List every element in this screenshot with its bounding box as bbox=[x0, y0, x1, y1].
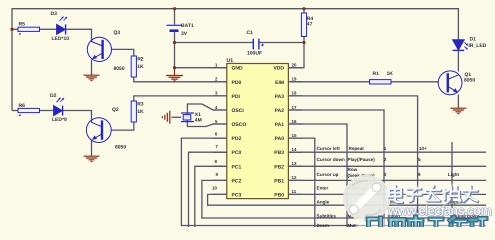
svg-text:10: 10 bbox=[212, 186, 217, 191]
table key matrix texts bbox=[317, 146, 480, 228]
node battery top junction bbox=[173, 7, 176, 10]
crystal X1 bbox=[181, 113, 194, 122]
diode D2 LED bbox=[54, 98, 64, 116]
svg-text:8050: 8050 bbox=[464, 78, 475, 84]
svg-text:PA2: PA2 bbox=[275, 108, 285, 114]
chip pin numbers left bbox=[212, 63, 218, 191]
watermark bottom banner glow bbox=[356, 219, 495, 228]
svg-text:Zoom: Zoom bbox=[317, 223, 330, 227]
svg-text:EIM: EIM bbox=[275, 80, 284, 86]
svg-text:GND: GND bbox=[232, 66, 244, 72]
wire top rail bbox=[12, 9, 458, 111]
wire chip pin stubs right bbox=[288, 68, 302, 195]
wire chip pin stubs left bbox=[213, 68, 227, 195]
node marker under R5 bbox=[19, 33, 21, 35]
svg-text:BAT1: BAT1 bbox=[181, 23, 194, 29]
svg-text:Cursor down: Cursor down bbox=[317, 157, 346, 162]
node battery GND junction bbox=[173, 66, 176, 69]
svg-text:PB1: PB1 bbox=[274, 178, 284, 184]
wire Q2 emitter to ground bbox=[91, 141, 93, 157]
node marker under R6 bbox=[19, 114, 21, 116]
wire pin11 PB0 table row4 bbox=[288, 193, 486, 195]
wire pin18 PA3 column bbox=[288, 96, 417, 227]
capacitor C1 bbox=[253, 39, 264, 50]
chip pin names left bbox=[232, 66, 247, 199]
svg-text:2: 2 bbox=[384, 157, 387, 162]
wire battery top bbox=[174, 9, 176, 25]
svg-text:PA3: PA3 bbox=[275, 94, 285, 100]
svg-text:IR_LED: IR_LED bbox=[469, 43, 487, 49]
wire node GND to pin1 bbox=[175, 67, 227, 69]
svg-text:15: 15 bbox=[292, 133, 297, 138]
resistor R2 bbox=[131, 56, 136, 77]
wire X1 to pin5 OSCO bbox=[206, 124, 227, 127]
svg-text:PB0: PB0 bbox=[274, 192, 284, 198]
wire pin15 PA0 column bbox=[288, 138, 314, 227]
wire D1 to Q1 collector bbox=[457, 51, 459, 72]
op-amp: none / IC U1 bbox=[212, 58, 297, 199]
svg-text:1K: 1K bbox=[137, 109, 144, 115]
node R4 top junction bbox=[303, 7, 306, 10]
svg-text:R5: R5 bbox=[19, 22, 26, 28]
svg-text:PB2: PB2 bbox=[274, 164, 284, 170]
svg-text:11: 11 bbox=[292, 189, 297, 194]
svg-text:Subtitles: Subtitles bbox=[317, 214, 337, 219]
ground Q3 bbox=[84, 75, 100, 80]
svg-text:Cursor up: Cursor up bbox=[317, 172, 339, 177]
wire R6 row left bbox=[12, 110, 18, 112]
wire battery bottom bbox=[174, 32, 176, 68]
svg-text:D2: D2 bbox=[50, 93, 57, 99]
svg-text:www.elecfans.com: www.elecfans.com bbox=[387, 203, 492, 218]
chip U1 body bbox=[227, 64, 289, 199]
svg-text:LED*10: LED*10 bbox=[52, 36, 70, 42]
watermark bottom banner glyphs bbox=[368, 217, 486, 227]
chip pin names right bbox=[273, 66, 284, 199]
svg-text:3V: 3V bbox=[181, 31, 188, 37]
svg-text:1: 1 bbox=[384, 146, 387, 151]
wire battery to C1 bbox=[175, 42, 254, 44]
svg-text:OSCO: OSCO bbox=[232, 122, 247, 128]
wire pin7 PC0 down bbox=[189, 152, 227, 227]
svg-text:4M: 4M bbox=[195, 118, 202, 124]
wire R5 row left bbox=[12, 28, 18, 30]
wire X1 bracket bbox=[187, 104, 206, 127]
svg-text:Light: Light bbox=[448, 172, 460, 177]
svg-text:100UF: 100UF bbox=[247, 50, 262, 56]
wire pin17 PA2 column bbox=[288, 110, 384, 227]
chip pin numbers right bbox=[292, 63, 297, 195]
wire X1 to ground bbox=[172, 116, 182, 118]
svg-text:1K: 1K bbox=[387, 71, 394, 77]
svg-text:R2: R2 bbox=[137, 57, 144, 63]
wire R6 to D2 bbox=[40, 110, 54, 112]
node VDD junction bbox=[303, 41, 306, 44]
watermark text www.elecfans.com bbox=[387, 203, 493, 219]
wire Q3 base to R2 bbox=[111, 49, 134, 56]
ground Q2 bbox=[84, 156, 100, 161]
svg-text:1K: 1K bbox=[137, 64, 144, 70]
svg-text:13: 13 bbox=[292, 161, 297, 166]
resistor R4 bbox=[301, 13, 306, 37]
svg-text:D1: D1 bbox=[470, 36, 477, 42]
watermark logo circle bbox=[343, 175, 390, 222]
svg-text:Repeat: Repeat bbox=[349, 146, 365, 151]
svg-text:VDD: VDD bbox=[273, 66, 284, 72]
svg-text:8050: 8050 bbox=[114, 66, 125, 72]
svg-text:Enter: Enter bbox=[317, 186, 329, 191]
svg-text:PD0: PD0 bbox=[232, 80, 242, 86]
svg-text:9: 9 bbox=[418, 172, 421, 177]
wire Q1 emitter to ground bbox=[457, 95, 459, 109]
wire pin8 PC1 down bbox=[195, 166, 227, 227]
svg-text:Play(/Pause): Play(/Pause) bbox=[348, 157, 376, 162]
svg-text:PA0: PA0 bbox=[275, 136, 285, 142]
wire D3 to Q3 collector bbox=[66, 29, 92, 42]
diode D1 IR LED bbox=[453, 40, 468, 51]
wire pin19 EIM to R1 bbox=[288, 81, 369, 83]
ground X1 rotated bbox=[162, 111, 170, 124]
wire pin13 PB2 table row2 bbox=[288, 165, 486, 167]
svg-text:47: 47 bbox=[307, 21, 313, 27]
svg-text:PC1: PC1 bbox=[232, 164, 242, 170]
svg-text:5: 5 bbox=[418, 157, 421, 162]
resistor R3 bbox=[131, 101, 136, 122]
diode D3 LED bbox=[57, 17, 67, 35]
resistor R1 bbox=[370, 80, 392, 84]
svg-text:14: 14 bbox=[292, 147, 297, 152]
wire Q3 emitter to ground bbox=[91, 60, 93, 76]
svg-text:R1: R1 bbox=[373, 71, 380, 77]
wire pin6 PD2 down bbox=[181, 138, 486, 225]
svg-text:OSCI: OSCI bbox=[232, 108, 245, 114]
transistor Q2 bbox=[86, 118, 111, 143]
svg-text:R3: R3 bbox=[137, 102, 144, 108]
svg-text:20: 20 bbox=[292, 63, 297, 68]
wire X1 to pin4 OSCI bbox=[202, 104, 227, 110]
wire pin16 PA1 column bbox=[288, 124, 347, 227]
svg-text:Q2: Q2 bbox=[112, 107, 119, 113]
svg-text:12: 12 bbox=[292, 175, 297, 180]
svg-text:16: 16 bbox=[292, 119, 297, 124]
svg-text:Row: Row bbox=[348, 167, 358, 172]
wire R4 bottom to pin20 VDD bbox=[288, 37, 304, 68]
svg-text:Angle: Angle bbox=[317, 200, 330, 205]
resistor R6 bbox=[18, 108, 40, 112]
battery BAT1 bbox=[167, 25, 182, 30]
op: maroon junctions and grounds bbox=[11, 7, 306, 69]
op: blue components bbox=[18, 13, 468, 143]
ground battery bbox=[166, 68, 183, 81]
wire R2 to pin2 PD0 bbox=[134, 77, 227, 82]
node R5 rail junction bbox=[11, 28, 14, 31]
svg-text:PC0: PC0 bbox=[232, 150, 242, 156]
wire pin9 PC2 wrap bbox=[202, 180, 486, 218]
svg-text:R6: R6 bbox=[19, 103, 26, 109]
wire R5 to D3 bbox=[40, 28, 57, 30]
svg-text:3: 3 bbox=[384, 172, 387, 177]
wire pin3 PDI to R3 bbox=[134, 96, 227, 101]
resistor R5 bbox=[18, 27, 40, 31]
node battery C1 junction bbox=[173, 41, 176, 44]
wire pin10 PC3 wrap bbox=[208, 194, 486, 205]
svg-text:PB3: PB3 bbox=[274, 150, 284, 156]
svg-text:C1: C1 bbox=[247, 30, 254, 36]
svg-text:U1: U1 bbox=[227, 58, 234, 64]
transistor Q3 bbox=[87, 37, 111, 61]
wire D2 to Q2 collector bbox=[63, 111, 92, 123]
wire R1 to Q1 base bbox=[391, 81, 438, 83]
wire table column5 bbox=[451, 142, 453, 227]
svg-text:LED*9: LED*9 bbox=[52, 117, 67, 123]
svg-text:Cursor left: Cursor left bbox=[317, 146, 341, 151]
wire C1 to VDD node bbox=[259, 42, 304, 44]
wire R4 top bbox=[303, 9, 305, 13]
svg-text:Q3: Q3 bbox=[114, 30, 121, 36]
transistor Q1 bbox=[438, 71, 462, 95]
svg-text:19: 19 bbox=[292, 77, 297, 82]
wire R3 to Q2 base bbox=[111, 122, 134, 130]
watermark text 电子发烧友 bbox=[389, 186, 478, 204]
svg-text:17: 17 bbox=[292, 105, 297, 110]
svg-text:18: 18 bbox=[292, 91, 297, 96]
svg-text:D3: D3 bbox=[51, 11, 58, 17]
svg-text:PD2: PD2 bbox=[232, 136, 242, 142]
svg-text:8050: 8050 bbox=[115, 145, 126, 151]
svg-text:PA1: PA1 bbox=[275, 122, 285, 128]
wire pin14 PB3 table row1 bbox=[288, 151, 486, 153]
wire pin12 PB1 table row3 bbox=[288, 179, 486, 181]
svg-text:PDI: PDI bbox=[232, 94, 241, 100]
svg-text:PC3: PC3 bbox=[232, 192, 242, 198]
ground Q1 bbox=[450, 108, 466, 113]
svg-text:PC2: PC2 bbox=[232, 178, 242, 184]
svg-text:10+: 10+ bbox=[419, 146, 427, 151]
